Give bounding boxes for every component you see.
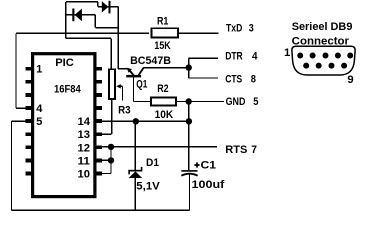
svg-text:5,1V: 5,1V xyxy=(136,181,160,193)
svg-text:Q1: Q1 xyxy=(136,78,147,90)
svg-text:15K: 15K xyxy=(154,40,171,52)
svg-text:TxD: TxD xyxy=(226,22,242,34)
svg-text:R3: R3 xyxy=(118,104,131,116)
svg-text:4: 4 xyxy=(36,103,43,115)
svg-text:8: 8 xyxy=(251,74,256,86)
svg-text:7: 7 xyxy=(251,144,257,156)
svg-text:9: 9 xyxy=(347,74,353,86)
svg-text:11: 11 xyxy=(78,155,91,167)
svg-text:CTS: CTS xyxy=(225,74,242,86)
svg-text:C1: C1 xyxy=(201,159,217,171)
svg-text:PIC: PIC xyxy=(55,57,74,69)
svg-text:Serieel DB9: Serieel DB9 xyxy=(292,21,353,33)
svg-text:10K: 10K xyxy=(155,109,174,121)
svg-text:16F84: 16F84 xyxy=(54,84,81,96)
svg-text:100uf: 100uf xyxy=(192,179,225,191)
svg-text:5: 5 xyxy=(253,96,258,108)
svg-text:13: 13 xyxy=(78,129,91,141)
svg-text:1: 1 xyxy=(284,47,290,59)
svg-text:BC547B: BC547B xyxy=(130,55,171,67)
svg-text:RTS: RTS xyxy=(225,144,248,156)
svg-text:DTR: DTR xyxy=(225,51,243,63)
svg-text:R2: R2 xyxy=(157,83,168,95)
svg-text:1: 1 xyxy=(36,64,42,76)
svg-text:4: 4 xyxy=(252,51,258,63)
svg-text:10: 10 xyxy=(78,169,91,181)
svg-text:Connector: Connector xyxy=(292,36,350,48)
svg-text:R1: R1 xyxy=(157,15,168,27)
svg-text:3: 3 xyxy=(249,22,254,34)
svg-text:GND: GND xyxy=(226,96,246,108)
svg-text:5: 5 xyxy=(36,116,42,128)
svg-text:12: 12 xyxy=(78,142,91,154)
svg-text:14: 14 xyxy=(78,116,91,128)
svg-text:D1: D1 xyxy=(146,157,159,169)
